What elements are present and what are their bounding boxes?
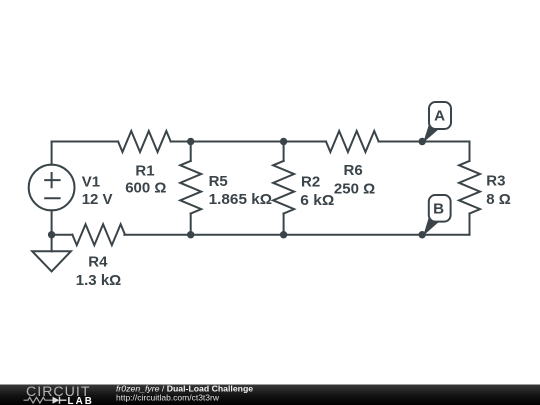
- resistor R1: [118, 131, 171, 152]
- svg-text:1.3 kΩ: 1.3 kΩ: [76, 272, 121, 289]
- svg-text:12 V: 12 V: [82, 191, 113, 208]
- junction dot bottom R5: [187, 231, 194, 238]
- resistor R2 leads: [283, 142, 285, 235]
- node A pointer wedge: [423, 120, 439, 143]
- node B flag box: [429, 195, 451, 222]
- svg-text:8 Ω: 8 Ω: [486, 191, 511, 208]
- svg-text:1.865 kΩ: 1.865 kΩ: [209, 191, 273, 208]
- svg-text:B: B: [433, 201, 444, 218]
- svg-text:R5: R5: [209, 173, 228, 190]
- junction dot bottom R2: [280, 231, 287, 238]
- ground triangle: [32, 251, 71, 271]
- junction dot ground/V1: [48, 231, 55, 238]
- svg-text:R3: R3: [486, 173, 505, 190]
- wire top-left vertical from V1 to top rail: [51, 142, 53, 165]
- wire top rail right segment to corner: [379, 141, 470, 143]
- svg-text:600 Ω: 600 Ω: [125, 179, 166, 196]
- V1 minus sign: [44, 197, 60, 199]
- svg-text:LAB: LAB: [68, 396, 94, 405]
- resistor R3: [459, 161, 480, 214]
- junction dot top R5: [187, 138, 194, 145]
- junction dot top R2: [280, 138, 287, 145]
- logo resistor zigzag: [24, 397, 53, 403]
- wire top rail between R1 and R6: [171, 141, 326, 143]
- node A junction dot: [419, 138, 426, 145]
- resistor R4: [72, 224, 125, 245]
- node A flag box: [429, 102, 451, 129]
- ground stem: [51, 235, 53, 252]
- svg-text:V1: V1: [82, 174, 100, 191]
- svg-text:R1: R1: [135, 163, 154, 180]
- wire V1 bottom to bottom rail: [51, 210, 53, 234]
- wire right vertical top lead: [469, 142, 471, 161]
- svg-text:250 Ω: 250 Ω: [334, 181, 375, 198]
- resistor R6: [326, 131, 379, 152]
- voltage source V1 circle: [29, 165, 75, 211]
- wire bottom rail left segment: [52, 234, 73, 236]
- wire bottom rail right segment: [124, 234, 469, 236]
- svg-text:6 kΩ: 6 kΩ: [300, 192, 334, 209]
- wire top rail left segment: [52, 141, 119, 143]
- logo diode: [53, 397, 60, 404]
- node B junction dot: [419, 231, 426, 238]
- wire right vertical bottom lead: [469, 214, 471, 235]
- V1 plus sign: [44, 172, 60, 188]
- resistor R2: [273, 161, 294, 214]
- svg-text:R6: R6: [344, 162, 363, 179]
- svg-text:R4: R4: [88, 253, 108, 270]
- node B pointer wedge: [423, 213, 439, 236]
- resistor R5 leads: [190, 142, 192, 235]
- svg-text:R2: R2: [301, 174, 320, 191]
- resistor R5: [180, 161, 201, 214]
- svg-text:A: A: [434, 107, 445, 124]
- svg-text:http://circuitlab.com/ct3t3rw: http://circuitlab.com/ct3t3rw: [116, 392, 220, 402]
